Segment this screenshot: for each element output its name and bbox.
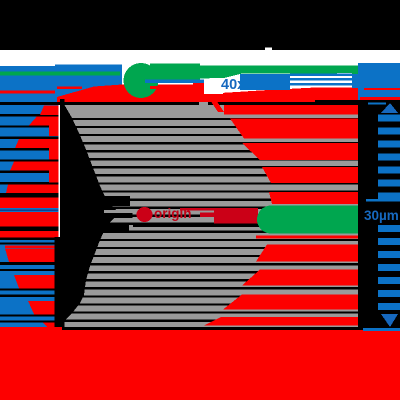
white patch (204, 81, 223, 95)
blue solid right end (352, 74, 400, 88)
white notch in top band (265, 48, 272, 51)
right zone top rows (358, 63, 400, 74)
red line to pill (200, 213, 216, 218)
RIGHT red bands (204, 102, 358, 326)
blue up arrow (381, 103, 398, 113)
box bottom black line (62, 327, 358, 330)
hatch black lines (65, 118, 359, 322)
svg-text:origin: origin (154, 206, 192, 221)
blue tick top (368, 103, 386, 105)
navy stripe (0, 208, 59, 212)
LEFT ZONE black lines (0, 114, 59, 323)
LEFT ZONE red dash bands (0, 106, 59, 328)
green circle (124, 63, 159, 98)
thin black line near center text (133, 225, 280, 227)
top black band (0, 0, 400, 50)
blue arrow solid (240, 74, 290, 90)
bottom red (0, 327, 62, 330)
box top line (0, 102, 358, 105)
red thin line above origin row (180, 208, 258, 211)
LEFT ZONE background blue (0, 66, 59, 330)
green top band (195, 66, 358, 79)
blue top-left block (55, 65, 122, 103)
blue dashes (290, 74, 352, 77)
red mass under top strip (57, 87, 82, 90)
green thin line right (352, 72, 398, 75)
red slivers near box edge (49, 121, 59, 136)
black cone (65, 105, 121, 321)
green stripe left (0, 72, 120, 76)
blue tick bottom (363, 328, 400, 331)
blue comb bars (378, 115, 400, 311)
red origin dot (137, 207, 153, 222)
BOX hatch: gray background (65, 105, 359, 327)
box left edge black (60, 99, 65, 213)
thin blue bar above text (366, 199, 400, 202)
svg-text:30µm: 30µm (364, 208, 399, 223)
green lobe (150, 64, 200, 80)
green pill (257, 206, 358, 234)
blue line through green (145, 80, 204, 84)
RIGHT ZONE black (358, 100, 400, 330)
blue down arrow (381, 314, 398, 327)
red stripe left (0, 91, 55, 94)
